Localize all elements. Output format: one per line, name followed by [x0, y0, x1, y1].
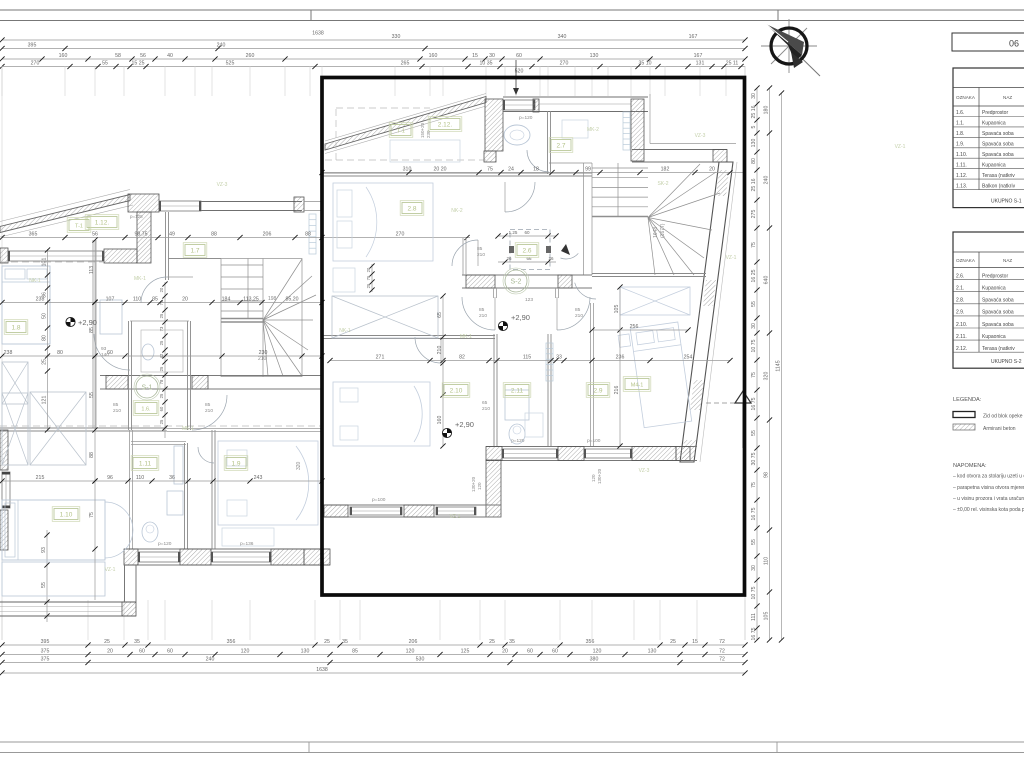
- svg-text:26: 26: [548, 256, 554, 261]
- svg-text:184: 184: [222, 297, 231, 303]
- svg-text:270: 270: [396, 232, 405, 238]
- right unit: stair: [584, 163, 721, 275]
- level marker +2,90: [498, 321, 507, 330]
- svg-text:365: 365: [29, 232, 38, 238]
- svg-text:Terasa (natkriv: Terasa (natkriv: [982, 173, 1015, 179]
- left unit: stair: [168, 259, 316, 378]
- svg-text:110: 110: [133, 297, 141, 303]
- svg-text:VZ-1: VZ-1: [450, 514, 461, 520]
- svg-text:25 16: 25 16: [751, 105, 757, 118]
- svg-text:60: 60: [139, 649, 145, 655]
- svg-text:120: 120: [241, 649, 250, 655]
- svg-text:1.11.: 1.11.: [956, 163, 967, 169]
- svg-text:35: 35: [509, 639, 515, 645]
- right unit: wall column A: [485, 99, 503, 151]
- svg-text:1638: 1638: [316, 667, 328, 673]
- left unit: dashed terrace line: [0, 261, 104, 263]
- svg-text:75: 75: [89, 512, 95, 518]
- svg-text:10 75: 10 75: [751, 339, 757, 352]
- furniture: bed: [2, 500, 105, 560]
- svg-text:375: 375: [41, 657, 50, 663]
- legend symbol: block wall: [953, 412, 975, 418]
- svg-text:2.9: 2.9: [593, 387, 602, 394]
- svg-text:1648: 1648: [653, 227, 659, 238]
- svg-text:2.11: 2.11: [511, 387, 524, 394]
- svg-text:1638: 1638: [312, 31, 324, 37]
- furniture: wardrobe: [2, 362, 28, 404]
- svg-text:20: 20: [709, 167, 715, 173]
- svg-text:131: 131: [696, 61, 705, 67]
- svg-text:271: 271: [376, 355, 385, 361]
- svg-text:26: 26: [506, 256, 512, 261]
- svg-text:310: 310: [403, 167, 412, 173]
- svg-text:120: 120: [406, 649, 415, 655]
- svg-text:60: 60: [107, 350, 113, 356]
- svg-text:25: 25: [159, 419, 164, 424]
- svg-text:110: 110: [136, 475, 144, 481]
- svg-text:78: 78: [159, 379, 164, 384]
- svg-text:15 25: 15 25: [132, 61, 145, 67]
- dimension chain line (vertical): [46, 530, 48, 622]
- left unit: partition x95: [92, 240, 94, 428]
- room label T-1: [391, 125, 411, 136]
- svg-text:Predprostor: Predprostor: [982, 273, 1008, 279]
- svg-text:1.7: 1.7: [190, 247, 199, 254]
- svg-text:MK-1: MK-1: [134, 276, 146, 282]
- svg-text:35 10: 35 10: [639, 61, 652, 67]
- svg-text:60: 60: [527, 649, 533, 655]
- svg-text:1.13.: 1.13.: [956, 183, 967, 189]
- sheet frame top line 2: [0, 20, 1024, 22]
- svg-text:1.11: 1.11: [139, 460, 152, 467]
- svg-text:182: 182: [661, 167, 670, 173]
- north arrow compass: [761, 19, 820, 76]
- right unit: wc fixtures: [504, 125, 530, 145]
- svg-text:Kupaonica: Kupaonica: [982, 286, 1006, 292]
- window: [159, 201, 201, 211]
- svg-text:1145: 1145: [776, 360, 782, 371]
- right unit: door arc hall: [505, 182, 535, 212]
- svg-text:105: 105: [764, 612, 770, 621]
- svg-text:240: 240: [764, 176, 770, 185]
- sheet frame top line 1: [0, 9, 1024, 11]
- svg-text:160: 160: [59, 53, 68, 59]
- left unit: wall y428: [0, 427, 167, 429]
- svg-text:Terasa (natkriv: Terasa (natkriv: [982, 346, 1015, 352]
- left unit: top wall end block: [294, 197, 304, 212]
- room label 1.10: [54, 509, 78, 520]
- svg-text:5: 5: [751, 125, 757, 128]
- right unit: partition y173: [322, 172, 592, 174]
- dimension chain line (vertical): [164, 282, 166, 438]
- dimension chain line (vertical): [371, 264, 373, 292]
- svg-text:55: 55: [751, 301, 757, 307]
- svg-text:20: 20: [502, 649, 508, 655]
- right unit: top-right wall: [632, 149, 727, 151]
- svg-text:55: 55: [751, 430, 757, 436]
- svg-text:16 75: 16 75: [751, 627, 757, 640]
- svg-text:340: 340: [558, 34, 567, 40]
- svg-text:130: 130: [648, 649, 657, 655]
- right unit: landing line: [549, 162, 592, 164]
- svg-text:375: 375: [41, 649, 50, 655]
- svg-text:VZ-3: VZ-3: [695, 133, 706, 139]
- svg-text:72: 72: [719, 649, 725, 655]
- left unit: west lower wall (window band): [0, 601, 136, 603]
- svg-text:160: 160: [429, 53, 438, 59]
- svg-text:80: 80: [57, 350, 63, 356]
- svg-text:20: 20: [107, 649, 113, 655]
- svg-text:113,25: 113,25: [243, 297, 259, 303]
- left unit: left edge wall stub: [0, 248, 8, 263]
- svg-text:256: 256: [630, 324, 639, 330]
- svg-text:25: 25: [670, 639, 676, 645]
- svg-text:238: 238: [4, 350, 13, 356]
- svg-text:356: 356: [227, 639, 236, 645]
- svg-text:180: 180: [764, 106, 770, 115]
- svg-text:254: 254: [684, 355, 693, 361]
- left unit: partition wall x165: [165, 212, 167, 280]
- svg-text:240: 240: [217, 43, 226, 49]
- svg-text:Zid od blok opeke: Zid od blok opeke: [983, 414, 1023, 420]
- svg-text:p=128: p=128: [130, 214, 143, 219]
- svg-text:320: 320: [764, 372, 770, 381]
- svg-text:72: 72: [719, 657, 725, 663]
- svg-text:25: 25: [42, 359, 48, 365]
- left unit: wall block left of stair: [104, 249, 137, 263]
- room label 1.8: [6, 322, 26, 333]
- svg-text:T-1: T-1: [397, 128, 405, 134]
- svg-text:210: 210: [437, 346, 443, 355]
- right unit: wall column B: [631, 99, 644, 161]
- svg-text:198: 198: [268, 296, 277, 302]
- svg-text:10 35: 10 35: [480, 61, 493, 67]
- svg-text:210: 210: [482, 406, 490, 412]
- svg-text:160: 160: [437, 416, 443, 425]
- svg-text:2.6.: 2.6.: [956, 273, 964, 279]
- left unit: bathroom top wall: [131, 441, 186, 443]
- svg-text:2.1.: 2.1.: [956, 286, 964, 292]
- svg-text:395: 395: [28, 43, 37, 49]
- right unit: door arc 2.10: [415, 337, 441, 363]
- entry arrow top: [515, 60, 517, 92]
- svg-text:16 25: 16 25: [751, 269, 757, 282]
- left unit: wall to bold edge: [304, 201, 322, 203]
- svg-text:240: 240: [206, 657, 215, 663]
- svg-text:35: 35: [342, 639, 348, 645]
- sheet frame bottom line 1: [0, 741, 1024, 743]
- right unit: wall 2.8/2.10: [322, 335, 495, 337]
- svg-text:72: 72: [719, 639, 725, 645]
- svg-text:2.8.: 2.8.: [956, 298, 964, 304]
- right unit: bath 2.11 fixtures: [509, 424, 525, 444]
- svg-text:MK-2: MK-2: [587, 127, 599, 133]
- left unit: door arc 1.9: [198, 447, 214, 463]
- left unit: top corner wall block: [128, 194, 159, 212]
- furniture: wardrobe: [620, 287, 690, 315]
- dimension chain line: [322, 172, 744, 174]
- svg-text:2.12.: 2.12.: [438, 121, 453, 128]
- svg-text:320: 320: [296, 461, 302, 470]
- svg-text:+2,90: +2,90: [78, 318, 97, 327]
- svg-text:210: 210: [575, 313, 583, 319]
- svg-text:25: 25: [159, 393, 164, 398]
- svg-text:216: 216: [614, 386, 620, 395]
- svg-text:96: 96: [107, 475, 113, 481]
- svg-text:206: 206: [263, 232, 272, 238]
- svg-text:VZ-1: VZ-1: [895, 144, 906, 150]
- dimension chain line: [2, 58, 745, 60]
- svg-text:243: 243: [254, 475, 263, 481]
- svg-text:p=100: p=100: [587, 438, 601, 444]
- right unit: bottom wall with windows: [486, 446, 697, 448]
- room label 2.8: [402, 203, 422, 214]
- svg-text:+2,90: +2,90: [455, 420, 474, 429]
- svg-text:p=120: p=120: [519, 115, 533, 121]
- left unit: bottom wall with windows: [124, 548, 330, 550]
- furniture: wardrobe: [30, 392, 86, 465]
- svg-text:25: 25: [159, 366, 164, 371]
- svg-text:2.10.: 2.10.: [956, 322, 967, 328]
- left unit: concrete column: [137, 212, 151, 263]
- svg-text:113: 113: [89, 266, 95, 274]
- svg-text:S-2: S-2: [511, 279, 522, 286]
- svg-text:Kupaonica: Kupaonica: [982, 334, 1006, 340]
- svg-text:VZ-1: VZ-1: [105, 567, 116, 573]
- right unit: wall x592 lower: [590, 303, 592, 446]
- dimension chain line: [498, 261, 556, 263]
- terrace edge step: [649, 94, 651, 144]
- furniture: bed room 2.8: [333, 183, 433, 261]
- svg-text:65: 65: [482, 400, 488, 406]
- drawing number box 06: [952, 33, 1024, 51]
- left unit: top wall double line: [159, 201, 302, 203]
- left unit: vestibule 1.6: [128, 321, 130, 430]
- left unit: vestibule door arcs: [94, 334, 130, 370]
- svg-text:36: 36: [42, 292, 48, 298]
- right unit: door arc 2.9: [575, 283, 596, 299]
- svg-text:73: 73: [159, 326, 164, 331]
- svg-text:2.9.: 2.9.: [956, 310, 964, 316]
- left unit: hall lower wall: [167, 428, 322, 430]
- dimension chain line (vertical): [769, 88, 771, 640]
- svg-text:24: 24: [508, 167, 514, 173]
- right unit: door arc 2.8: [452, 240, 478, 266]
- svg-text:80: 80: [42, 335, 48, 341]
- dimension chain line: [2, 355, 322, 357]
- svg-text:Predprostor: Predprostor: [982, 110, 1008, 116]
- svg-text:85: 85: [479, 307, 485, 313]
- svg-text:88: 88: [211, 232, 217, 238]
- window: [8, 251, 104, 261]
- dimension chain line (vertical): [94, 240, 96, 600]
- svg-text:395: 395: [41, 639, 50, 645]
- svg-text:123: 123: [525, 297, 533, 303]
- svg-text:85: 85: [113, 402, 119, 408]
- dimension chain line (vertical): [47, 249, 49, 430]
- svg-text:230: 230: [259, 350, 268, 356]
- svg-text:75: 75: [751, 372, 757, 378]
- section label S-2: [505, 270, 527, 292]
- svg-text:25: 25: [489, 639, 495, 645]
- svg-text:110: 110: [764, 557, 770, 565]
- svg-text:2.10: 2.10: [450, 387, 463, 394]
- svg-text:150+20: 150+20: [420, 122, 425, 138]
- right unit: small door triangle: [561, 244, 570, 255]
- svg-text:Spavaća soba: Spavaća soba: [982, 310, 1014, 316]
- window: [138, 552, 180, 562]
- svg-text:121: 121: [42, 396, 48, 405]
- dimension chain line: [2, 66, 745, 68]
- svg-text:275: 275: [751, 210, 757, 219]
- svg-text:LEGENDA:: LEGENDA:: [953, 397, 982, 403]
- svg-text:88: 88: [89, 452, 95, 458]
- dimension chain line: [2, 672, 745, 674]
- svg-text:75: 75: [366, 275, 371, 280]
- sheet frame bottom line 2: [0, 752, 1024, 754]
- construction witness lines: [2, 66, 745, 640]
- window: [502, 449, 558, 458]
- svg-text:25: 25: [104, 639, 110, 645]
- svg-text:– ±0,00 rel. visinska kota pod: – ±0,00 rel. visinska kota poda prizemlj: [953, 507, 1024, 513]
- level marker +2,90: [442, 428, 451, 437]
- svg-text:60: 60: [167, 649, 173, 655]
- svg-text:60: 60: [159, 406, 164, 411]
- svg-text:20: 20: [182, 297, 188, 303]
- svg-text:120: 120: [591, 474, 596, 482]
- right unit: lower-left wall: [324, 504, 501, 506]
- room table S-1: [953, 68, 1024, 208]
- svg-text:40: 40: [167, 53, 173, 59]
- svg-text:SK-2: SK-2: [657, 181, 668, 187]
- svg-text:(1677): (1677): [660, 223, 666, 238]
- right unit: sloped exterior wall (hatched band): [325, 94, 486, 142]
- dimension chain line: [2, 644, 745, 646]
- svg-text:25: 25: [324, 639, 330, 645]
- svg-text:1.6.: 1.6.: [141, 406, 151, 412]
- svg-text:T-1: T-1: [75, 223, 83, 229]
- room label 2.7: [551, 140, 571, 151]
- svg-text:210: 210: [479, 313, 487, 319]
- right unit: slanted east wall: [680, 162, 733, 462]
- svg-text:Spavaća soba: Spavaća soba: [982, 322, 1014, 328]
- svg-text:1.12.: 1.12.: [95, 219, 110, 226]
- svg-text:85: 85: [205, 402, 211, 408]
- svg-text:2.12.: 2.12.: [956, 346, 967, 352]
- furniture: bed room 2.10: [333, 382, 430, 446]
- svg-text:98: 98: [764, 472, 770, 478]
- svg-text:75: 75: [487, 167, 493, 173]
- sheet frame bottom divider A: [308, 742, 310, 753]
- svg-text:640: 640: [764, 276, 770, 285]
- svg-text:25: 25: [159, 313, 164, 318]
- svg-text:p=120: p=120: [158, 541, 172, 547]
- svg-text:– kod otvora za stolariju uzet: – kod otvora za stolariju uzeti u obzir …: [953, 474, 1024, 480]
- dimension chain line (vertical): [442, 296, 444, 446]
- svg-text:2.6: 2.6: [522, 247, 531, 254]
- svg-text:OZNAKA: OZNAKA: [956, 258, 976, 263]
- svg-text:1.9: 1.9: [231, 460, 240, 467]
- furniture: bed: [2, 266, 50, 344]
- entry arrow right: [706, 402, 753, 404]
- dimension chain line: [330, 360, 730, 362]
- svg-text:120: 120: [593, 649, 602, 655]
- furniture: wardrobe: [332, 296, 438, 338]
- svg-text:2.8: 2.8: [407, 205, 416, 212]
- right unit: stair bottom wall: [592, 273, 706, 275]
- svg-text:85,20: 85,20: [286, 297, 299, 303]
- svg-text:1.1.: 1.1.: [956, 121, 964, 127]
- svg-text:Kupaonica: Kupaonica: [982, 163, 1006, 169]
- svg-text:25: 25: [159, 340, 164, 345]
- svg-text:120: 120: [477, 482, 482, 490]
- svg-text:82: 82: [459, 355, 465, 361]
- svg-text:356: 356: [586, 639, 595, 645]
- right unit: corridor walls: [493, 288, 495, 298]
- dimension chain line: [2, 654, 745, 656]
- svg-text:115: 115: [523, 355, 531, 361]
- window: [436, 507, 476, 515]
- svg-text:1.8.: 1.8.: [956, 131, 964, 137]
- svg-text:167: 167: [694, 53, 703, 59]
- svg-text:NAPOMENA:: NAPOMENA:: [953, 463, 987, 469]
- svg-text:60: 60: [552, 649, 558, 655]
- svg-text:270: 270: [560, 61, 569, 67]
- right unit: terrace dashed boundary: [325, 108, 486, 160]
- left unit: bathroom wall x131: [129, 430, 131, 549]
- svg-text:MK-1: MK-1: [182, 426, 194, 432]
- right unit: step wall down: [486, 460, 501, 517]
- section label S-1: [136, 376, 158, 398]
- right unit: radiator corridor: [546, 343, 553, 381]
- svg-text:30: 30: [751, 323, 757, 329]
- svg-text:85: 85: [89, 327, 95, 333]
- svg-text:210: 210: [258, 356, 267, 362]
- left unit: left wall segment low: [0, 430, 8, 470]
- furniture: wardrobe: [2, 393, 28, 465]
- right unit: top wall: [503, 96, 648, 98]
- sheet frame top divider A: [310, 10, 312, 21]
- dimension chain line: [2, 480, 322, 482]
- dimension chain line (vertical): [756, 88, 758, 640]
- svg-text:Armirani beton: Armirani beton: [983, 426, 1016, 432]
- svg-text:210: 210: [113, 408, 121, 414]
- room label 2.12.: [430, 119, 460, 130]
- svg-text:55: 55: [102, 61, 108, 67]
- svg-text:55: 55: [89, 392, 95, 398]
- svg-text:OZNAKA: OZNAKA: [956, 95, 976, 100]
- right unit: double door arcs: [462, 297, 495, 330]
- sheet frame bottom divider B: [776, 742, 778, 753]
- left unit: radiator: [309, 214, 316, 254]
- svg-text:105: 105: [614, 305, 620, 314]
- left unit: sloped exterior wall (hatched band): [0, 190, 130, 222]
- room label 1.12.: [87, 217, 117, 228]
- svg-text:530: 530: [416, 657, 425, 663]
- svg-text:60: 60: [524, 230, 530, 235]
- svg-text:NK-1: NK-1: [339, 328, 351, 334]
- room table S-2: [953, 232, 1024, 368]
- right unit: closet 2.6: [510, 230, 550, 270]
- svg-text:1.12.: 1.12.: [956, 173, 967, 179]
- svg-text:33: 33: [556, 355, 562, 361]
- room label 1.11: [133, 458, 157, 469]
- svg-text:1.6.: 1.6.: [956, 110, 964, 116]
- svg-text:330: 330: [392, 34, 401, 40]
- svg-text:M4-1: M4-1: [631, 382, 644, 388]
- svg-text:210: 210: [205, 408, 213, 414]
- room label 2.9: [588, 385, 608, 396]
